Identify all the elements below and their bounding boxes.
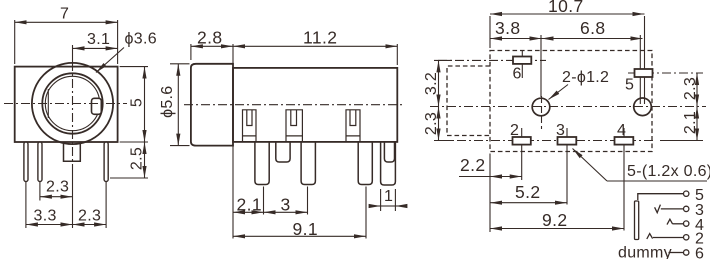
side view short pin right	[384, 141, 394, 162]
leader 2-phi1.2	[549, 85, 569, 100]
hole 2 centerline	[639, 35, 641, 104]
dimension 2.5	[110, 177, 148, 179]
svg-text:5.2: 5.2	[515, 182, 541, 202]
svg-text:5: 5	[129, 98, 146, 107]
hole 2	[634, 98, 652, 116]
svg-text:2.3: 2.3	[423, 112, 440, 135]
side view pin 3	[358, 141, 372, 185]
dimension 3.3 (front)	[25, 182, 27, 229]
dimension 2.1 (side)	[232, 144, 234, 239]
front view ring inner	[45, 76, 99, 130]
side view centerline	[184, 104, 404, 106]
side view pin 2	[301, 141, 315, 185]
pads row centerline	[440, 140, 656, 142]
svg-text:3: 3	[556, 122, 565, 139]
svg-text:dummy: dummy	[618, 245, 672, 259]
schematic wire terminal 5	[638, 194, 684, 200]
svg-text:9.2: 9.2	[542, 210, 568, 230]
schematic terminal circle 2	[684, 235, 689, 240]
svg-text:2: 2	[510, 122, 519, 139]
hole 1 centerline	[540, 35, 542, 97]
svg-text:3.8: 3.8	[495, 18, 521, 38]
side view pin 4	[381, 141, 396, 185]
schematic wire terminal 3	[661, 208, 684, 210]
dimension 2.8	[190, 44, 192, 60]
svg-text:3.2: 3.2	[423, 72, 440, 95]
pad 4	[623, 128, 625, 231]
schematic wire terminal 2	[653, 237, 683, 239]
pad 6	[438, 59, 546, 61]
svg-text:3: 3	[281, 195, 291, 215]
front view vertical centerline	[72, 45, 74, 62]
dimension 3.8	[490, 38, 542, 40]
svg-text:2.1: 2.1	[237, 195, 263, 215]
schematic terminal circle 3	[684, 206, 689, 211]
dimension 3.1	[73, 47, 118, 49]
front view right contact tab	[92, 98, 102, 114]
side view pin 1	[255, 141, 269, 185]
svg-text:2.2: 2.2	[460, 155, 486, 175]
pcb layout barrel outline	[447, 66, 490, 136]
svg-text:1: 1	[384, 188, 393, 205]
dimension 7	[14, 20, 16, 64]
svg-text:ϕ3.6: ϕ3.6	[125, 31, 157, 48]
dimension 2.3 (pcb left)	[434, 140, 452, 142]
schematic terminal circle 5	[684, 191, 689, 196]
dimension 2.3 (pcb right)	[696, 73, 698, 107]
front view horizontal centerline	[4, 103, 127, 105]
dimension 9.2	[490, 228, 624, 230]
svg-text:6: 6	[695, 246, 704, 259]
dimension 11.2	[232, 44, 234, 65]
dimension 6.8	[542, 38, 643, 40]
svg-text:11.2: 11.2	[303, 28, 337, 48]
side view slot feature 3	[346, 110, 360, 142]
svg-text:7: 7	[60, 6, 69, 23]
svg-text:2.3: 2.3	[78, 207, 101, 224]
schematic wire terminal 4	[673, 223, 683, 225]
svg-text:2.8: 2.8	[197, 28, 223, 48]
schematic terminal circle 6	[684, 250, 689, 255]
side view slot feature 1	[243, 110, 257, 142]
svg-text:2.3: 2.3	[682, 77, 699, 100]
dimension 1	[380, 189, 382, 211]
svg-text:ϕ5.6: ϕ5.6	[159, 85, 176, 117]
front view bottom center tab	[64, 143, 81, 162]
dimension 2.3 lower (front)	[105, 182, 107, 229]
svg-text:5-(1.2x 0.6): 5-(1.2x 0.6)	[627, 163, 710, 180]
schematic switch contact 3	[655, 205, 661, 213]
dimension phi5.6	[170, 63, 190, 65]
pad 3	[566, 128, 568, 205]
schematic sleeve bar	[635, 201, 639, 240]
front view outer barrel circle	[32, 63, 113, 144]
front view tip contact chord	[47, 89, 49, 118]
svg-text:2.5: 2.5	[129, 147, 146, 170]
dimension 2.3 upper (front)	[39, 182, 41, 201]
front view ring outer	[42, 73, 102, 133]
hole 1	[532, 98, 550, 116]
svg-text:3.3: 3.3	[34, 207, 57, 224]
front view pin 1	[24, 142, 28, 182]
dimension 3.2 (pcb left)	[434, 59, 452, 61]
front view pin 2	[38, 142, 42, 182]
front view body	[15, 67, 118, 142]
pcb layout body outline	[490, 51, 652, 152]
schematic terminal circle 4	[684, 221, 689, 226]
side view barrel	[191, 64, 233, 146]
svg-text:6.8: 6.8	[580, 18, 606, 38]
leader phi3.6	[96, 48, 124, 73]
side view body	[233, 68, 397, 142]
schematic switch contact 4	[667, 219, 673, 224]
svg-text:10.7: 10.7	[548, 0, 584, 16]
svg-text:4: 4	[617, 122, 626, 139]
svg-text:5: 5	[625, 77, 634, 94]
svg-text:9.1: 9.1	[293, 219, 319, 239]
side view short pin left	[276, 141, 290, 162]
dimension 2.1 (pcb right)	[660, 140, 703, 142]
schematic wire terminal 6 dummy	[669, 252, 684, 254]
svg-text:2-ϕ1.2: 2-ϕ1.2	[562, 69, 609, 86]
svg-text:2.1: 2.1	[682, 111, 699, 134]
dimension 2.2	[489, 154, 491, 233]
pcb layout centerline	[430, 106, 706, 108]
svg-text:3.1: 3.1	[87, 31, 110, 48]
dimension 5.2	[490, 202, 567, 204]
schematic switch contact 2	[647, 234, 653, 239]
pad 5	[628, 72, 703, 74]
front view pin 3	[104, 142, 108, 182]
svg-text:2.3: 2.3	[46, 178, 69, 195]
dimension 5	[120, 66, 148, 68]
svg-text:6: 6	[513, 66, 522, 83]
dimension 10.7	[489, 16, 491, 48]
leader 5-(1.2x0.6)	[607, 180, 707, 182]
side view slot feature 2	[286, 110, 302, 142]
dimension 3 (side)	[307, 187, 309, 215]
pad 2	[521, 128, 523, 180]
dimension 9.1	[365, 187, 367, 239]
